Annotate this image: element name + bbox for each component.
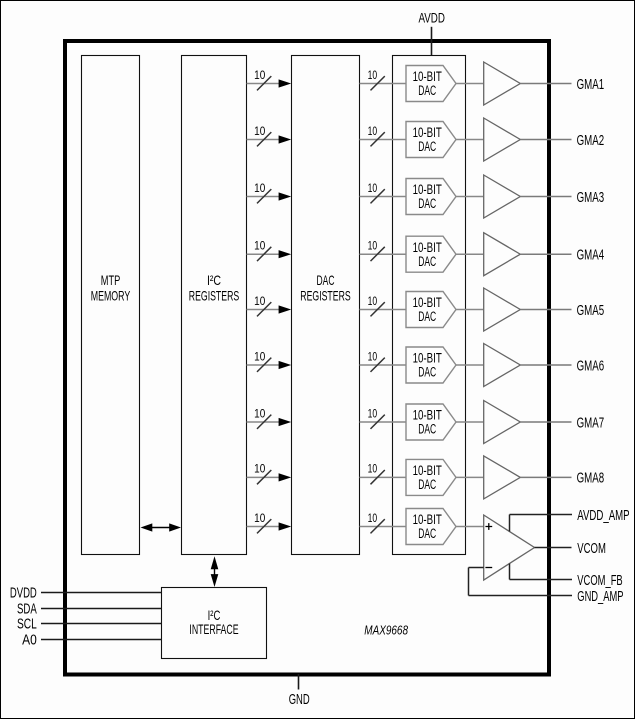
bus width slash row 7 left: [257, 415, 271, 429]
svg-text:DAC: DAC: [418, 196, 436, 211]
svg-text:DAC: DAC: [418, 477, 436, 492]
op-amp VCOM amplifier U10: [484, 515, 535, 580]
svg-text:MEMORY: MEMORY: [91, 288, 131, 303]
wire AVDD to DAC block: [431, 27, 433, 56]
wire DAC U8 to amplifier row 8: [456, 476, 483, 478]
bus width slash row 6 left: [257, 358, 271, 372]
svg-text:10-BIT: 10-BIT: [413, 125, 442, 140]
bus width slash row 7 right: [371, 415, 385, 429]
bus width slash row 5 left: [257, 302, 271, 316]
svg-text:10: 10: [254, 351, 265, 363]
svg-text:10: 10: [368, 126, 378, 138]
10-BIT DAC U9: [406, 509, 456, 545]
wire bus I2C REGISTERS to DAC REGISTERS row 5: [247, 305, 292, 313]
svg-text:GND: GND: [289, 692, 310, 708]
bus width slash row 9 left: [257, 519, 271, 533]
svg-text:10: 10: [368, 296, 378, 308]
wire amplifier A6 to pin GMA6: [520, 364, 571, 366]
wire DAC U4 to amplifier row 4: [456, 253, 483, 255]
10-BIT DAC U2: [406, 122, 456, 158]
bus width slash row 4 left: [257, 247, 271, 261]
wire amplifier A3 to pin GMA3: [520, 196, 571, 198]
wire DAC U5 to amplifier row 5: [456, 309, 483, 311]
svg-text:10: 10: [368, 70, 378, 82]
wire bus DAC REGISTERS to DAC row 4: [360, 253, 407, 255]
svg-text:DVDD: DVDD: [10, 586, 37, 602]
amplifier buffer A1: [484, 62, 521, 105]
wire amplifier A8 to pin GMA8: [520, 476, 571, 478]
wire bus I2C REGISTERS to DAC REGISTERS row 2: [247, 135, 292, 143]
svg-text:DAC: DAC: [418, 139, 436, 154]
svg-text:INTERFACE: INTERFACE: [189, 622, 238, 637]
wire bus DAC REGISTERS to DAC row 9: [360, 526, 407, 528]
svg-text:VCOM: VCOM: [577, 541, 606, 557]
wire AVDD_AMP to op-amp: [510, 515, 573, 532]
svg-text:GMA8: GMA8: [577, 471, 605, 487]
svg-text:10-BIT: 10-BIT: [413, 351, 442, 366]
svg-text:REGISTERS: REGISTERS: [189, 288, 239, 303]
svg-text:10-BIT: 10-BIT: [413, 408, 442, 423]
wire A0 to I2C INTERFACE: [41, 639, 162, 641]
10-BIT DAC U1: [406, 66, 456, 102]
svg-text:10-BIT: 10-BIT: [413, 69, 442, 84]
wire bus DAC REGISTERS to DAC row 1: [360, 83, 407, 85]
svg-text:GMA4: GMA4: [577, 248, 605, 264]
wire amplifier A1 to pin GMA1: [520, 83, 571, 85]
svg-text:MTP: MTP: [101, 273, 121, 288]
block MTP MEMORY: [82, 56, 140, 555]
amplifier buffer A7: [484, 401, 521, 444]
10-BIT DAC U3: [406, 179, 456, 215]
bus width slash row 3 left: [257, 189, 271, 203]
block I2C REGISTERS: [182, 56, 247, 555]
svg-text:10: 10: [254, 408, 265, 420]
svg-text:REGISTERS: REGISTERS: [300, 288, 350, 303]
wire SCL to I2C INTERFACE: [41, 623, 162, 625]
block DAC array: [393, 56, 466, 555]
svg-text:10: 10: [254, 70, 265, 82]
svg-text:AVDD: AVDD: [418, 11, 445, 26]
svg-text:MAX9668: MAX9668: [364, 622, 408, 637]
svg-text:10-BIT: 10-BIT: [413, 512, 442, 527]
10-BIT DAC U8: [406, 459, 456, 495]
wire GND stub: [298, 674, 300, 690]
wire amplifier A5 to pin GMA5: [520, 309, 571, 311]
wire bus DAC REGISTERS to DAC row 3: [360, 196, 407, 198]
svg-text:10: 10: [254, 183, 265, 195]
wire op-amp output to pin VCOM: [535, 547, 572, 549]
wire VCOM_FB to op-amp: [510, 564, 573, 580]
svg-text:10: 10: [254, 126, 265, 138]
block DAC REGISTERS: [292, 56, 360, 555]
10-BIT DAC U6: [406, 347, 456, 383]
svg-text:10: 10: [368, 241, 378, 253]
amplifier buffer A8: [484, 456, 521, 499]
svg-text:DAC: DAC: [418, 422, 436, 437]
bus width slash row 2 right: [371, 132, 385, 146]
amplifier buffer A6: [484, 344, 521, 387]
wire bus I2C REGISTERS to DAC REGISTERS row 1: [247, 79, 292, 87]
wire SDA to I2C INTERFACE: [41, 608, 162, 610]
bus width slash row 8 left: [257, 470, 271, 484]
svg-text:10-BIT: 10-BIT: [413, 295, 442, 310]
bus width slash row 1 right: [371, 76, 385, 90]
wire DAC U9 to op-amp noninverting input: [456, 526, 484, 528]
bus width slash row 6 right: [371, 358, 385, 372]
svg-text:SDA: SDA: [17, 602, 37, 618]
svg-text:GND_AMP: GND_AMP: [577, 589, 623, 605]
svg-text:GMA6: GMA6: [577, 358, 605, 374]
bidirectional arrow I2C REGISTERS to I2C INTERFACE: [211, 556, 219, 587]
bus width slash row 2 left: [257, 132, 271, 146]
svg-text:10: 10: [254, 241, 265, 253]
wire DAC U7 to amplifier row 7: [456, 421, 483, 423]
wire amplifier A7 to pin GMA7: [520, 421, 571, 423]
wire amplifier A2 to pin GMA2: [520, 139, 571, 141]
wire DAC U1 to amplifier row 1: [456, 83, 483, 85]
10-BIT DAC U4: [406, 236, 456, 272]
svg-text:I²C: I²C: [208, 608, 221, 623]
wire bus DAC REGISTERS to DAC row 5: [360, 309, 407, 311]
bus width slash row 1 left: [257, 76, 271, 90]
svg-text:VCOM_FB: VCOM_FB: [577, 573, 622, 589]
svg-text:10: 10: [368, 183, 378, 195]
svg-text:DAC: DAC: [418, 83, 436, 98]
svg-text:GMA7: GMA7: [577, 415, 605, 431]
bus width slash row 3 right: [371, 189, 385, 203]
wire bus DAC REGISTERS to DAC row 6: [360, 364, 407, 366]
10-BIT DAC U5: [406, 292, 456, 328]
wire bus DAC REGISTERS to DAC row 2: [360, 139, 407, 141]
block I2C INTERFACE: [162, 588, 267, 659]
svg-text:DAC: DAC: [317, 273, 335, 288]
svg-text:10: 10: [368, 513, 378, 525]
bidirectional arrow MTP MEMORY to I2C REGISTERS: [141, 523, 182, 531]
wire bus DAC REGISTERS to DAC row 7: [360, 421, 407, 423]
bus width slash row 9 right: [371, 519, 385, 533]
wire bus DAC REGISTERS to DAC row 8: [360, 476, 407, 478]
svg-text:A0: A0: [22, 633, 37, 649]
svg-text:10: 10: [254, 513, 265, 525]
svg-text:10: 10: [254, 464, 265, 476]
svg-text:DAC: DAC: [418, 526, 436, 541]
svg-text:10: 10: [368, 464, 378, 476]
svg-text:DAC: DAC: [418, 309, 436, 324]
wire bus I2C REGISTERS to DAC REGISTERS row 8: [247, 473, 292, 481]
wire bus I2C REGISTERS to DAC REGISTERS row 9: [247, 522, 292, 530]
amplifier buffer A3: [484, 175, 521, 218]
svg-text:AVDD_AMP: AVDD_AMP: [577, 508, 629, 524]
svg-text:GMA1: GMA1: [577, 77, 605, 93]
svg-text:10: 10: [368, 408, 378, 420]
wire DAC U3 to amplifier row 3: [456, 196, 483, 198]
chip outline border: [65, 41, 549, 675]
svg-text:10: 10: [254, 296, 265, 308]
wire DAC U6 to amplifier row 6: [456, 364, 483, 366]
svg-text:DAC: DAC: [418, 254, 436, 269]
svg-text:SCL: SCL: [17, 617, 37, 633]
svg-text:10-BIT: 10-BIT: [413, 182, 442, 197]
wire DAC U2 to amplifier row 2: [456, 139, 483, 141]
svg-text:GMA5: GMA5: [577, 303, 605, 319]
wire amplifier A4 to pin GMA4: [520, 253, 571, 255]
bus width slash row 4 right: [371, 247, 385, 261]
10-BIT DAC U7: [406, 404, 456, 440]
bus width slash row 5 right: [371, 302, 385, 316]
amplifier buffer A5: [484, 288, 521, 331]
wire bus I2C REGISTERS to DAC REGISTERS row 4: [247, 250, 292, 258]
svg-text:10: 10: [368, 351, 378, 363]
svg-text:10-BIT: 10-BIT: [413, 240, 442, 255]
wire DVDD to I2C INTERFACE: [41, 592, 162, 594]
svg-text:10-BIT: 10-BIT: [413, 463, 442, 478]
svg-text:I²C: I²C: [207, 273, 221, 288]
wire bus I2C REGISTERS to DAC REGISTERS row 3: [247, 192, 292, 200]
svg-text:GMA2: GMA2: [577, 133, 605, 149]
amplifier buffer A2: [484, 118, 521, 161]
wire bus I2C REGISTERS to DAC REGISTERS row 7: [247, 418, 292, 426]
svg-text:GMA3: GMA3: [577, 190, 605, 206]
wire bus I2C REGISTERS to DAC REGISTERS row 6: [247, 361, 292, 369]
amplifier buffer A4: [484, 233, 521, 276]
svg-text:DAC: DAC: [418, 365, 436, 380]
bus width slash row 8 right: [371, 470, 385, 484]
wire GND_AMP to op-amp inverting input: [469, 568, 573, 596]
